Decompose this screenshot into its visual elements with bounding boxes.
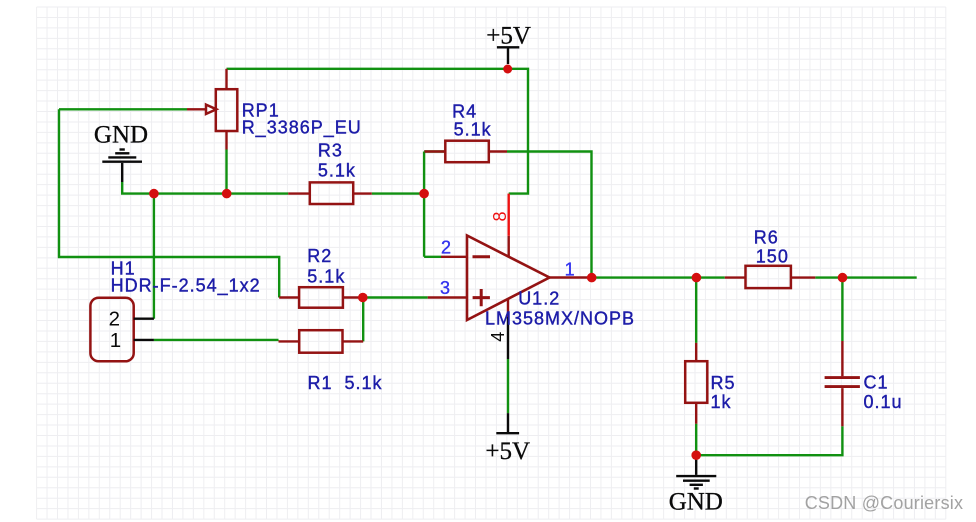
- svg-text:150: 150: [756, 247, 789, 267]
- svg-text:5.1k: 5.1k: [307, 266, 345, 286]
- svg-text:HDR-F-2.54_1x2: HDR-F-2.54_1x2: [111, 275, 261, 296]
- svg-text:2: 2: [109, 308, 120, 331]
- svg-text:4: 4: [488, 332, 508, 342]
- svg-text:5.1k: 5.1k: [318, 161, 356, 181]
- svg-text:R2: R2: [307, 246, 332, 266]
- svg-text:R1 5.1k: R1 5.1k: [308, 373, 383, 393]
- svg-text:8: 8: [490, 211, 510, 221]
- svg-text:1: 1: [565, 259, 575, 279]
- svg-text:1: 1: [110, 329, 121, 352]
- svg-text:3: 3: [440, 278, 450, 298]
- svg-text:+5V: +5V: [486, 22, 531, 49]
- svg-text:R4: R4: [452, 101, 477, 121]
- svg-text:C1: C1: [864, 372, 889, 392]
- svg-text:GND: GND: [94, 121, 148, 148]
- svg-text:+5V: +5V: [485, 438, 530, 465]
- svg-text:R3: R3: [318, 141, 343, 161]
- svg-text:U1.2: U1.2: [518, 288, 560, 308]
- svg-text:CSDN @Couriersix: CSDN @Couriersix: [805, 493, 964, 513]
- svg-text:LM358MX/NOPB: LM358MX/NOPB: [485, 309, 635, 329]
- svg-text:R_3386P_EU: R_3386P_EU: [242, 118, 362, 139]
- svg-text:R6: R6: [754, 228, 779, 248]
- svg-text:5.1k: 5.1k: [454, 119, 492, 139]
- svg-text:1k: 1k: [711, 392, 732, 412]
- svg-text:GND: GND: [669, 489, 723, 516]
- svg-text:R5: R5: [711, 373, 736, 393]
- svg-text:2: 2: [441, 237, 451, 257]
- svg-text:0.1u: 0.1u: [864, 392, 903, 412]
